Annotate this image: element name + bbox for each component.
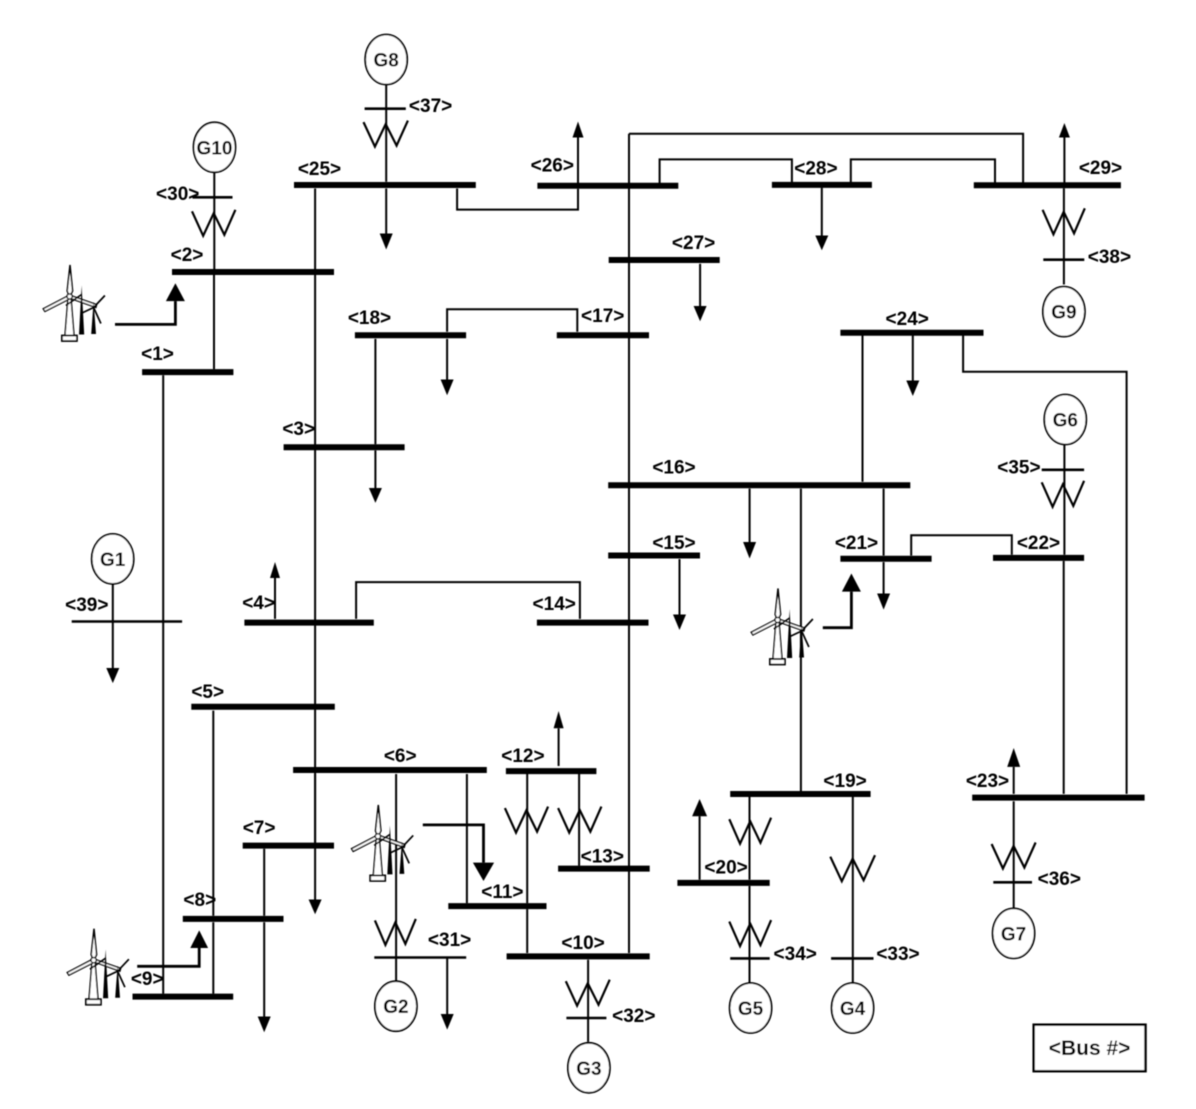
svg-text:G9: G9 <box>1051 303 1076 324</box>
wire bus21-bus22 connector <box>911 535 1012 555</box>
bus 16 <box>608 482 910 488</box>
wire line 12-11 (through transformer) <box>526 774 528 903</box>
node bus 37 <box>365 107 406 110</box>
bus 25 <box>294 182 476 188</box>
load arrow at bus 27 <box>694 264 707 322</box>
wire bus6 to G2 (through T31) <box>395 774 397 982</box>
wire bus25-bus26 connector <box>457 189 578 210</box>
bus 23 <box>972 795 1144 801</box>
wire long vertical 26-27-17-16-15-14-13-10 <box>628 134 630 953</box>
bus 3 <box>284 444 405 450</box>
bus 7 <box>243 843 334 849</box>
bus 9 <box>133 994 234 1000</box>
svg-text:<6>: <6> <box>384 746 417 767</box>
bus 29 <box>974 182 1121 188</box>
wind turbine at bus 6 <box>352 805 414 881</box>
svg-text:<2>: <2> <box>171 245 204 266</box>
wire line 26-29 top <box>629 134 1023 183</box>
node bus 30 <box>193 196 233 199</box>
node bus 39 <box>72 620 182 623</box>
node bus 38 <box>1043 258 1084 261</box>
node bus 34 <box>730 957 770 960</box>
svg-text:<8>: <8> <box>183 890 216 911</box>
legend box Bus # <box>1034 1025 1146 1072</box>
up arrow at bus 23 <box>1007 748 1020 794</box>
generator G7 <box>993 908 1035 958</box>
wire bus1-bus39-bus9 vertical <box>162 375 164 994</box>
svg-text:<13>: <13> <box>581 847 624 868</box>
load arrow at bus 15 <box>673 559 686 630</box>
wire bus20 to G5 (through T34) <box>749 886 751 984</box>
node bus 36 <box>993 881 1032 884</box>
node bus 32 <box>566 1017 606 1020</box>
load arrow at bus 18 <box>441 339 454 395</box>
wire line 12-13 (through transformer) <box>578 774 580 866</box>
node bus 31 <box>374 956 466 959</box>
generator G1 <box>92 534 134 584</box>
wire G9 to bus 29 (through T38) <box>1063 188 1065 284</box>
svg-text:<36>: <36> <box>1038 869 1081 890</box>
transformer T31 (G2 step-up) <box>375 919 416 945</box>
svg-text:<Bus #>: <Bus #> <box>1049 1037 1131 1060</box>
bus 13 <box>558 866 650 872</box>
generator G2 <box>375 981 417 1031</box>
bus 6 <box>293 767 487 773</box>
load arrow at bus 39 <box>106 622 119 684</box>
svg-text:<39>: <39> <box>65 595 108 616</box>
wire G10 to bus 2 (through T30) <box>213 172 215 269</box>
wind injection arrow into bus 21 <box>823 574 861 628</box>
wire G1 to bus 39 <box>112 584 114 621</box>
bus 22 <box>993 555 1084 561</box>
up arrow at bus 20 <box>692 799 707 880</box>
svg-text:G7: G7 <box>1001 924 1026 945</box>
svg-text:<34>: <34> <box>774 944 817 965</box>
svg-text:<22>: <22> <box>1017 533 1060 554</box>
wire line 25-2-3-4-5-6-7 vertical <box>314 189 316 846</box>
bus 15 <box>608 553 700 559</box>
load arrow at bus 16 <box>743 489 756 559</box>
svg-text:<3>: <3> <box>282 419 315 440</box>
wire bus23 to G7 (through T36) <box>1013 801 1015 908</box>
svg-text:<26>: <26> <box>531 156 574 177</box>
svg-text:<21>: <21> <box>835 533 878 554</box>
bus 24 <box>840 330 983 336</box>
up arrow at bus 4 <box>270 562 280 619</box>
transformer T34 (G5 step-up) <box>729 920 771 946</box>
svg-text:<31>: <31> <box>428 930 471 951</box>
svg-text:<24>: <24> <box>886 309 929 330</box>
svg-text:<12>: <12> <box>501 746 544 767</box>
wire line 28-29 <box>851 159 995 182</box>
wire line 11-10 <box>526 909 528 953</box>
load arrow at bus 21 <box>877 562 890 610</box>
svg-text:<18>: <18> <box>348 308 391 329</box>
svg-text:<30>: <30> <box>156 184 199 205</box>
transformer T32 (G3 step-up) <box>566 980 610 1006</box>
load arrow at bus 7 <box>309 774 322 914</box>
load arrow at bus 3 <box>369 450 382 503</box>
node bus 35 <box>1042 468 1084 471</box>
load arrow at bus 31 <box>441 958 454 1029</box>
transformer T30 (G10 step-up) <box>192 210 235 236</box>
load arrow at bus 24 <box>906 336 919 397</box>
wire line 26-28 <box>660 159 792 183</box>
wind injection arrow into bus 8 <box>137 930 208 966</box>
node bus 33 <box>831 957 873 960</box>
transformer T38 (G9 step-up) <box>1043 208 1085 234</box>
svg-text:<28>: <28> <box>794 159 837 180</box>
svg-text:G2: G2 <box>383 997 408 1018</box>
wire bus4-bus14 connector <box>356 582 580 619</box>
svg-text:G5: G5 <box>738 999 764 1020</box>
bus 2 <box>172 269 334 275</box>
transformer 12-11 <box>505 807 548 833</box>
transformer T35 (G6 step-up) <box>1042 481 1084 507</box>
svg-text:<16>: <16> <box>652 458 695 479</box>
transformer 19-20 <box>729 818 771 844</box>
svg-text:G4: G4 <box>840 999 866 1020</box>
svg-text:<9>: <9> <box>131 969 164 990</box>
wire line 24-23 <box>963 336 1127 794</box>
generator G3 <box>568 1043 610 1093</box>
wire G8 to bus 25 (through T37) <box>385 85 387 182</box>
wire bus18-bus17 connector <box>447 309 577 332</box>
transformer T36 (G7 step-up) <box>992 843 1036 869</box>
bus 20 <box>677 880 769 886</box>
generator G9 <box>1043 287 1085 337</box>
load arrow at bus 25 <box>380 189 393 250</box>
svg-text:<4>: <4> <box>242 593 275 614</box>
svg-text:<23>: <23> <box>966 771 1009 792</box>
transformer T37 (G8 step-up) <box>364 121 408 147</box>
bus 19 <box>730 791 870 797</box>
svg-text:<20>: <20> <box>704 858 747 879</box>
svg-text:G10: G10 <box>197 138 233 159</box>
wire line 16-24 <box>862 336 864 482</box>
wind injection arrow into bus 2 <box>115 283 185 324</box>
wire bus19 to G4 (through T33) <box>852 797 854 984</box>
svg-text:<14>: <14> <box>533 594 576 615</box>
up arrow at bus 26 <box>573 122 584 184</box>
svg-text:<11>: <11> <box>481 882 523 903</box>
generator G4 <box>832 983 874 1033</box>
bus 11 <box>448 903 546 909</box>
wind turbine at bus 2 <box>43 265 105 341</box>
wind injection arrow into bus 11 <box>423 825 494 881</box>
bus 17 <box>557 332 649 338</box>
svg-text:<27>: <27> <box>672 233 715 254</box>
bus 14 <box>537 620 649 626</box>
svg-text:<33>: <33> <box>876 944 919 965</box>
bus 5 <box>191 704 334 710</box>
bus 18 <box>355 332 466 338</box>
generator G5 <box>730 983 772 1033</box>
bus 1 <box>142 369 233 375</box>
svg-text:<25>: <25> <box>298 159 341 180</box>
generator G8 <box>365 35 407 85</box>
svg-text:<15>: <15> <box>652 533 695 554</box>
wire line 8-9 <box>212 922 214 994</box>
wire bus19 to bus20 (through transformer) <box>749 797 751 880</box>
wind turbine at bus 21 <box>751 589 813 665</box>
svg-text:G3: G3 <box>576 1059 601 1080</box>
bus 26 <box>537 183 678 189</box>
bus 4 <box>244 620 373 626</box>
wire line 22-23 <box>1063 561 1065 794</box>
svg-text:<32>: <32> <box>612 1006 655 1027</box>
svg-text:G6: G6 <box>1053 411 1078 432</box>
load arrow at bus 28 <box>815 188 828 251</box>
up arrow at bus 12 <box>554 711 564 766</box>
svg-text:<35>: <35> <box>997 458 1040 479</box>
transformer T33 (G4 step-up) <box>830 855 875 881</box>
generator G10 <box>194 122 236 172</box>
wire bus2 to bus1 <box>213 275 215 369</box>
svg-text:<7>: <7> <box>243 818 276 839</box>
load arrow at bus 8 <box>258 922 271 1032</box>
generator G6 <box>1044 395 1086 445</box>
svg-text:<37>: <37> <box>409 96 452 117</box>
bus 8 <box>183 916 284 922</box>
wire line 6-11 <box>466 774 468 903</box>
svg-text:<17>: <17> <box>581 306 624 327</box>
transformer 12-13 <box>558 807 601 833</box>
wire line 16-21 <box>883 489 885 556</box>
bus 10 <box>507 953 650 959</box>
bus 12 <box>506 768 597 774</box>
bus 28 <box>772 182 872 188</box>
svg-text:<1>: <1> <box>141 344 174 365</box>
up arrow at bus 29 <box>1059 123 1070 183</box>
wire line 7-8 <box>263 849 265 916</box>
svg-text:<19>: <19> <box>823 771 866 792</box>
bus 21 <box>840 556 931 562</box>
bus 27 <box>609 257 720 263</box>
wire line 5-8 <box>212 711 214 916</box>
svg-text:<10>: <10> <box>561 933 604 954</box>
svg-text:G1: G1 <box>100 550 126 571</box>
svg-text:<38>: <38> <box>1088 247 1131 268</box>
wire line 3-18 <box>374 339 376 444</box>
wire G3 to bus 10 (through T32) <box>587 960 589 1042</box>
svg-text:<29>: <29> <box>1079 158 1122 179</box>
svg-text:<5>: <5> <box>191 682 224 703</box>
wind turbine at bus 9 <box>67 929 129 1005</box>
wire G6 to bus 22 (through T35) <box>1063 445 1065 555</box>
svg-text:G8: G8 <box>374 51 399 72</box>
wire line 16-19 <box>800 489 802 792</box>
